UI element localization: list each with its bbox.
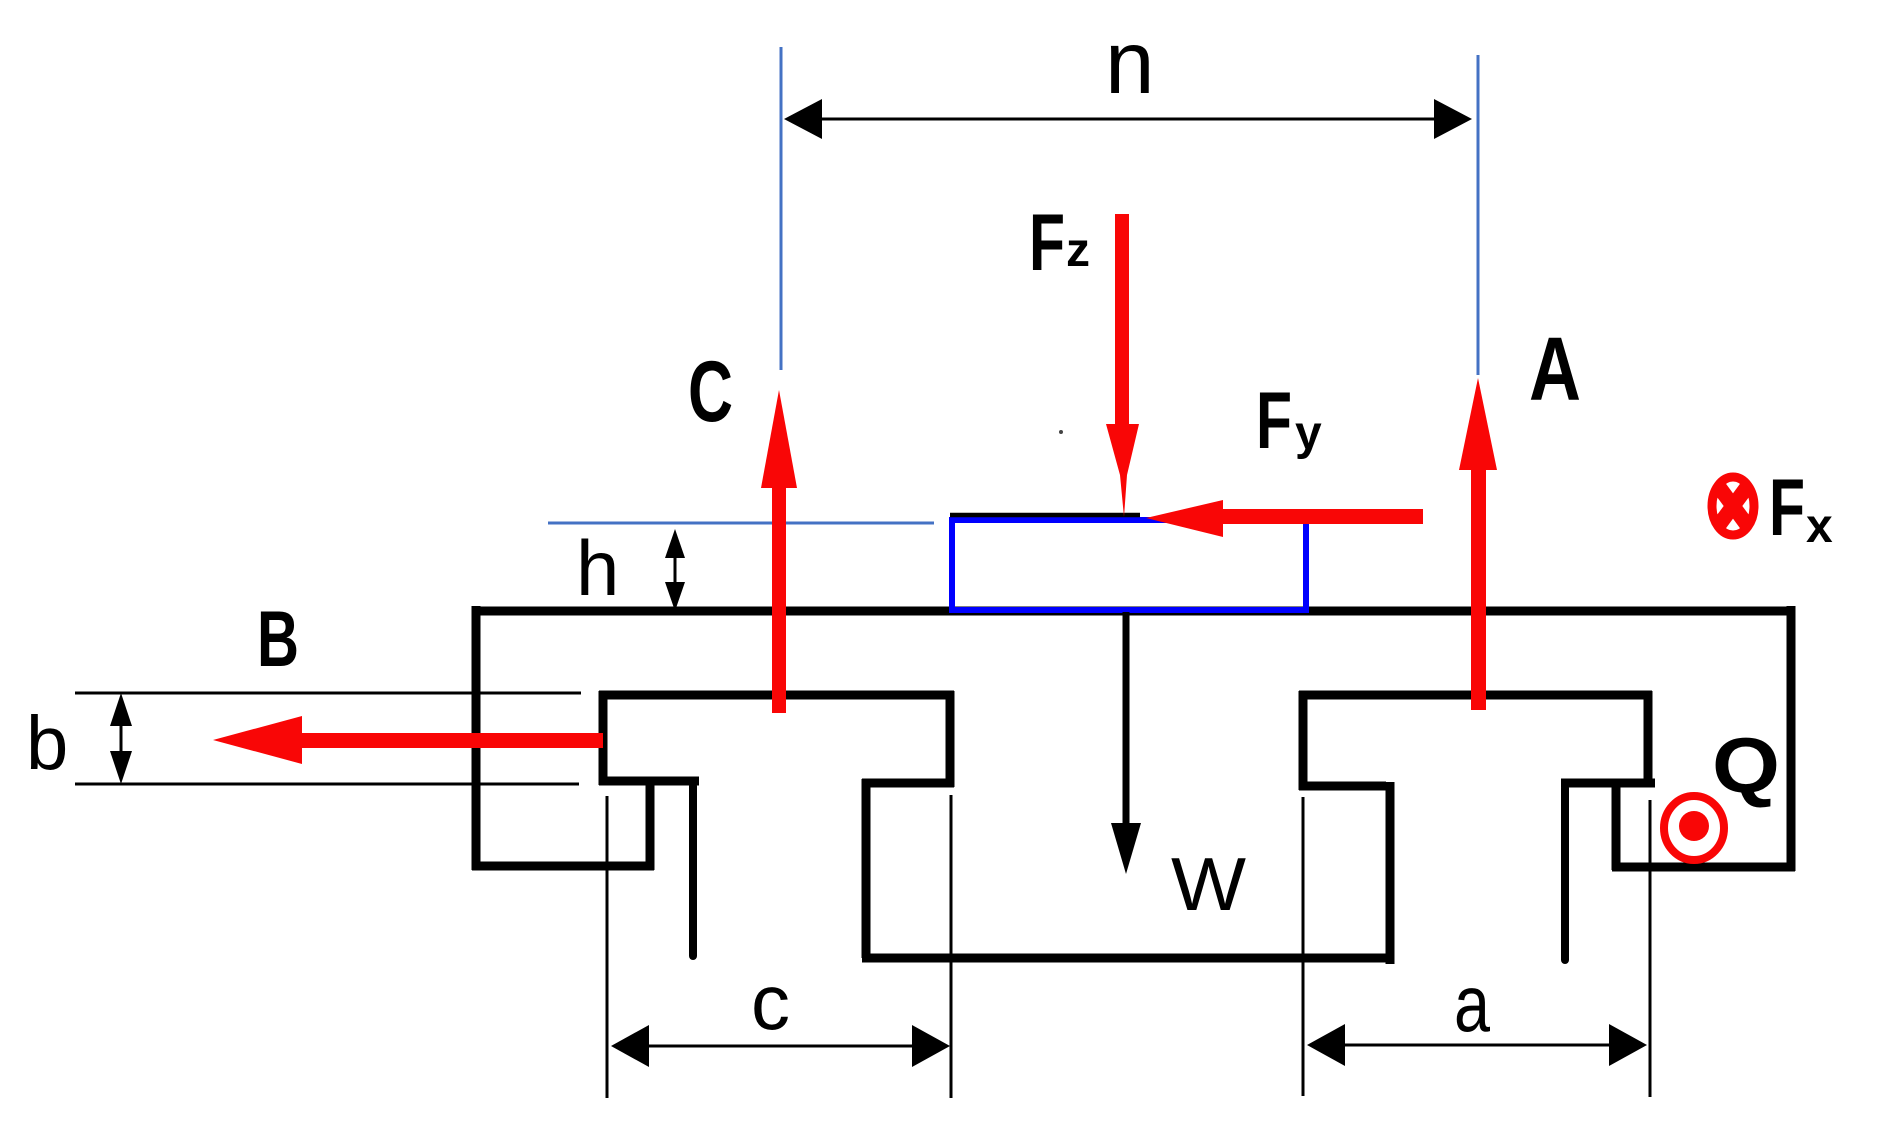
svg-text:F: F [1769,463,1805,553]
force arrow A (up) [1459,378,1497,710]
svg-text:A: A [1529,320,1581,420]
dimension arrow b (double vertical) [110,693,132,784]
body outline: right pocket vertical [1612,779,1621,870]
extension line c right [950,795,953,1098]
body outline: centre tub bottom [862,954,1394,963]
dimension arrow c [611,1025,950,1067]
dimension arrow n [784,99,1472,139]
body outline: left outer vertical [472,606,481,870]
extension line a left [1302,797,1305,1096]
body outline: left pocket bottom [472,862,654,871]
force arrow Fy (left) [1146,500,1423,537]
construction line blue horizontal h-datum [548,522,934,525]
svg-text:x: x [1806,500,1833,553]
body outline: top surface [472,607,1795,616]
construction line blue vertical C [780,47,783,370]
svg-text:C: C [688,344,733,440]
body outline: right pocket bottom [1612,863,1795,872]
dimension arrow a [1307,1024,1647,1066]
svg-text:y: y [1295,407,1322,460]
body outline: centre tub right wall [1386,782,1395,964]
force arrow C (up) [761,390,797,713]
body outline: left T-bar right vertical [946,691,955,787]
body outline: left T-bar top [599,691,954,700]
body outline: right outer vertical [1787,606,1796,871]
force arrow B (left) [213,716,603,764]
workpiece blue rectangle [952,520,1306,610]
extension line b upper [75,692,581,695]
body outline: left T-bar left vertical [599,691,608,785]
weight arrow W [1111,612,1141,874]
body outline: left T-bar bottom-right horizontal [862,779,954,788]
body outline: centre tub left wall [862,779,871,958]
svg-text:F: F [1256,376,1292,466]
svg-text:b: b [26,701,68,786]
extension line b lower [75,783,579,786]
svg-text:Q: Q [1712,721,1780,809]
svg-text:h: h [576,524,619,612]
svg-text:n: n [1105,12,1155,112]
extension line c left [606,796,609,1098]
symbol Fx (into page) [1712,477,1754,535]
workpiece top edge black overlay [950,513,1140,518]
symbol Q (out of page) [1664,796,1724,860]
stray dot [1059,430,1063,434]
extension line a right [1649,800,1652,1097]
dimension arrow h (double vertical) [665,529,685,611]
body outline: left pocket right vertical [646,777,655,870]
body outline: left step horizontal [599,777,699,786]
svg-text:z: z [1066,224,1090,277]
body outline: right hanging slot line [1561,788,1569,960]
svg-text:W: W [1171,842,1246,926]
body outline: right step horizontal [1561,779,1655,788]
body outline: right T-bar right vertical [1644,691,1653,787]
svg-text:c: c [751,958,790,1046]
body outline: right T-bar bottom-left horizontal [1299,782,1386,791]
body outline: left hanging slot line [689,786,697,956]
svg-text:B: B [257,594,299,683]
svg-text:a: a [1454,959,1490,1048]
force arrow Fz (down) [1106,214,1139,517]
body outline: right T-bar top [1299,691,1652,700]
body outline: right T-bar left vertical [1299,691,1308,790]
svg-text:F: F [1029,198,1065,288]
construction line blue vertical A [1477,55,1480,375]
